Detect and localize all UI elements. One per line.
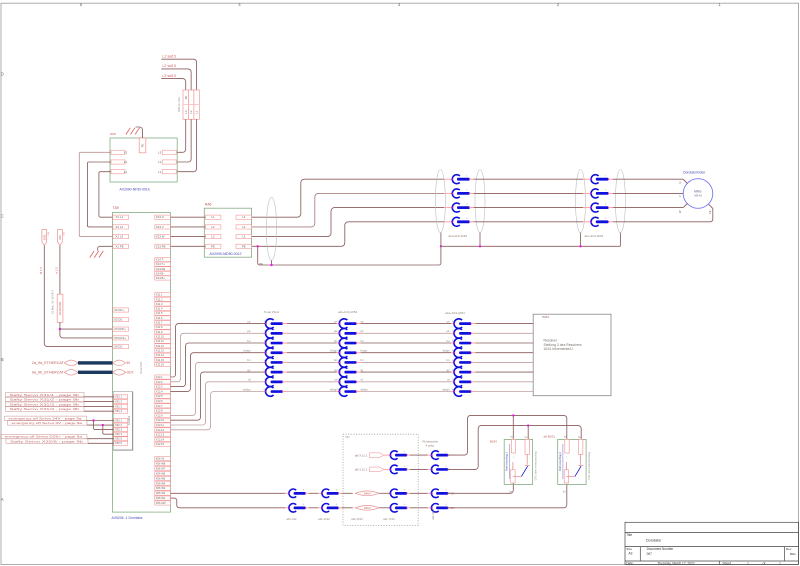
svg-text:X06 0V: X06 0V — [156, 457, 165, 461]
wire 24V down to fuse — [59, 246, 61, 295]
svg-text:1: 1 — [605, 176, 607, 178]
wire W to motor — [613, 207, 683, 209]
salmon stub bn/gn g1 out — [282, 352, 287, 354]
drive pin X11.16 — [155, 362, 171, 366]
svg-text:bu: bu — [447, 339, 450, 343]
drive pin X14 T+ — [155, 262, 171, 266]
svg-text:X11.6: X11.6 — [156, 316, 163, 320]
filter right pin L2' — [162, 160, 176, 164]
salmon stub out of pair D row2 — [448, 468, 451, 470]
svg-text:L1: L1 — [158, 170, 162, 174]
svg-text:PE: PE — [184, 96, 188, 100]
wire RA6 PE up to PE run — [252, 222, 445, 247]
ground symbol below X1 PE — [90, 251, 104, 258]
salmon stub out of plug V g1 — [469, 192, 473, 194]
feedback connector bn/gn group1 — [264, 348, 284, 358]
drive pin X13 W — [155, 235, 171, 239]
svg-text:1: 1 — [445, 452, 447, 454]
svg-text:X32 2: X32 2 — [115, 423, 123, 427]
salmon stub gy g1 out — [282, 371, 287, 373]
drive pin X12.7 — [155, 404, 171, 408]
drive pin X0 DC- — [113, 345, 129, 349]
svg-text:X11.11: X11.11 — [156, 339, 164, 343]
salmon stub out of plug V g2 — [609, 192, 613, 194]
svg-text:Thursday, March 17, 2022: Thursday, March 17, 2022 — [658, 561, 695, 565]
svg-text:9a_9b_ETHERCAT: 9a_9b_ETHERCAT — [32, 371, 65, 375]
salmon stub bu g2 out — [356, 342, 360, 344]
salmon stub bu g3 out — [471, 342, 475, 344]
svg-text:bn: bn — [447, 358, 450, 362]
wire X12.1 fan up to ye row — [170, 324, 266, 377]
wire X12.9 fan up to bn row — [170, 362, 266, 415]
drive pin X11.9 — [155, 330, 171, 334]
svg-text:X11.8: X11.8 — [156, 325, 163, 329]
svg-text:L1: L1 — [242, 215, 246, 219]
drive pin X12.13 — [155, 433, 171, 437]
svg-text:4: 4 — [336, 504, 338, 506]
svg-text:Dorotator: Dorotator — [646, 539, 662, 543]
svg-text:X1 L3: X1 L3 — [116, 235, 124, 239]
svg-text:PE: PE — [708, 210, 712, 214]
wire bn/gn group3 to resolver — [475, 352, 533, 354]
salmon stub bn/gn g3 out — [471, 352, 475, 354]
svg-text:EtherCAT: EtherCAT — [139, 361, 143, 373]
svg-text:X31 1: X31 1 — [115, 395, 123, 399]
safety pin X32 4 — [114, 432, 128, 436]
wire row4 pairB to K62 box — [342, 507, 353, 509]
svg-text:X32 6: X32 6 — [115, 441, 123, 445]
wire row3 pairC to pairD — [410, 492, 428, 494]
wire filter PE to ground — [136, 127, 143, 138]
cable screen ellipse A — [435, 170, 445, 233]
svg-text:X06 IN3: X06 IN3 — [156, 486, 166, 490]
wire branch down to B534 pin1 — [512, 415, 514, 441]
salmon stub bn g1 out — [282, 361, 287, 363]
feedback connector bn/gn group2 — [337, 348, 357, 358]
salmon stub gy g2 in — [337, 371, 341, 373]
cable screen ellipse D — [615, 170, 625, 233]
wire PE group1 to group2 — [474, 221, 584, 223]
salmon stub out of plug W g2 — [609, 207, 613, 209]
drive pin X1 L1 — [113, 215, 129, 219]
salmon stub rd g3 in — [451, 381, 455, 383]
svg-text:X1 PE: X1 PE — [116, 244, 124, 248]
svg-text:X11.10: X11.10 — [156, 335, 165, 339]
salmon stub into plug W g2 — [583, 207, 591, 209]
salmon stub out of pair D row1 — [448, 454, 451, 456]
fuse EL/SA POW — [57, 294, 63, 322]
wire bn group2 to group3 — [361, 361, 452, 363]
wire X13 V to RA6 L2 — [170, 226, 205, 228]
svg-text:Dreh Anschlag 2: Dreh Anschlag 2 — [558, 451, 562, 471]
svg-text:Date:: Date: — [626, 561, 634, 565]
feedback connector ye group2 — [337, 319, 357, 329]
feedback connector bu group1 — [264, 338, 284, 348]
drive pin X13 V — [155, 225, 171, 229]
svg-text:X11.12: X11.12 — [156, 344, 165, 348]
svg-text:X0 DCP+: X0 DCP+ — [114, 327, 126, 331]
svg-text:X13 V: X13 V — [156, 225, 164, 229]
wire gy group1 to group2 — [287, 371, 337, 373]
svg-text:gy: gy — [247, 368, 251, 372]
drive pin X12.14 — [155, 437, 171, 441]
svg-text:L2: L2 — [124, 160, 128, 164]
svg-text:Bittn: Bittn — [790, 552, 796, 556]
salmon stub out of pair A row4 — [305, 507, 308, 509]
salmon stub pk g1 out — [282, 332, 287, 334]
svg-text:X12.1: X12.1 — [156, 375, 163, 379]
svg-text:gy: gy — [447, 369, 450, 372]
brake connector pair A row3 — [289, 489, 307, 498]
drive pin X11.3 — [155, 302, 171, 306]
svg-text:X06 24V: X06 24V — [156, 501, 166, 505]
svg-text:RA6: RA6 — [205, 202, 212, 206]
wire branch down to B534 pin2 — [527, 426, 529, 442]
wire X12.2 fan up to pk row — [170, 333, 266, 382]
cable connector U group2 — [591, 175, 610, 184]
wire to X31 1 — [84, 396, 114, 398]
offpage connector 2a_9a_ETHERCAT — [64, 360, 78, 366]
salmon stub gy g2 out — [356, 371, 360, 373]
svg-text:4: 4 — [605, 218, 607, 220]
junction row1 to B534 — [512, 414, 514, 416]
salmon stub into plug PE g2 — [583, 221, 591, 223]
drive pin X06 IN4 — [155, 481, 171, 485]
svg-text:bl 1.5: bl 1.5 — [39, 267, 43, 274]
junction row2 to B534 — [527, 424, 529, 426]
svg-text:X11.14: X11.14 — [156, 353, 165, 357]
drive pin X06 IN2 — [155, 491, 171, 495]
drive pin X12.4 — [155, 389, 171, 393]
svg-text:X11.9: X11.9 — [156, 330, 163, 334]
salmon stub bn/gn g3 in — [451, 352, 455, 354]
svg-text:-K14: -K14 — [48, 232, 50, 236]
svg-text:X06 IN5: X06 IN5 — [156, 476, 166, 480]
net flag a8-X12.2 — [370, 467, 384, 472]
salmon stub pk g3 out — [471, 332, 475, 334]
feedback connector bn/gn group3 — [452, 348, 472, 358]
junction PE wire / screen drain — [257, 245, 259, 247]
feedback connector pk group2 — [337, 329, 357, 339]
net flag a8-X12.1 — [370, 453, 384, 458]
filter left pin L3 — [111, 150, 125, 154]
filter left pin L2 — [111, 160, 125, 164]
drive pin X14 PE — [155, 267, 171, 271]
wire branch to X32 4 — [103, 425, 114, 434]
svg-text:ye: ye — [447, 320, 450, 323]
svg-text:L1: L1 — [124, 170, 128, 174]
svg-text:PE: PE — [141, 144, 145, 148]
drive TA9 box AX5206 — [112, 213, 170, 513]
svg-text:emergency off Servo D26+ - pag: emergency off Servo D26+ - page 9a — [5, 435, 83, 439]
salmon stub rd g2 out — [356, 381, 360, 383]
cable connector W group1 — [452, 203, 470, 212]
svg-text:X31 4: X31 4 — [115, 409, 123, 413]
wire bn/gn group1 to group2 — [287, 352, 337, 354]
wire ye group1 to group2 — [287, 323, 337, 325]
screen drop from ellipse 1 — [271, 260, 273, 265]
svg-text:PE: PE — [259, 262, 263, 266]
salmon stub into plug PE g1 — [444, 221, 452, 223]
drive pin X1 L3 — [113, 235, 129, 239]
feedback connector wh/gn group2 — [337, 387, 357, 397]
svg-text:1024 Inkremente/U: 1024 Inkremente/U — [544, 347, 574, 351]
salmon stub into pair A row3 — [285, 492, 289, 494]
connector pair D (Rundstecker) row1 — [431, 451, 449, 460]
wire L3' from label to breaker col L3 — [161, 79, 186, 90]
svg-text:Safty Servo X32/6 - page 9b: Safty Servo X32/6 - page 9b — [10, 439, 84, 443]
wire ye group3 to resolver — [475, 323, 533, 325]
filter PE pin — [139, 138, 146, 153]
safety pin X32 1 — [114, 418, 128, 422]
svg-text:X11.15: X11.15 — [156, 358, 165, 362]
svg-text:X32 4: X32 4 — [115, 432, 123, 436]
wire gy group3 to resolver — [475, 371, 533, 373]
junction screen ellipse C — [579, 245, 581, 247]
salmon stub out of pair C row4 — [407, 507, 410, 509]
wire pk group1 to group2 — [287, 332, 337, 334]
motor MAG circle — [683, 179, 713, 209]
wire U group1 to group2 — [474, 178, 584, 180]
svg-text:PE: PE — [211, 244, 215, 248]
svg-text:X32 5: X32 5 — [115, 437, 123, 441]
svg-text:L1' sw2.5: L1' sw2.5 — [163, 54, 177, 58]
safety pin X32 5 — [114, 437, 128, 441]
svg-text:4: 4 — [466, 218, 468, 220]
drive pin X14 T- — [155, 258, 171, 262]
svg-text:wh/gn: wh/gn — [330, 387, 338, 391]
wire RA6 L2 up to V run — [252, 193, 445, 227]
svg-text:ye: ye — [361, 320, 364, 323]
salmon stub bu g2 in — [337, 342, 341, 344]
wire gy group2 to group3 — [361, 371, 452, 373]
svg-text:bu: bu — [525, 436, 528, 439]
feedback connector bn group3 — [452, 358, 472, 368]
salmon stub out of pair C row2 — [407, 468, 410, 470]
svg-text:wh/gn: wh/gn — [442, 387, 450, 391]
drive pin X11.10 — [155, 334, 171, 338]
svg-text:wh/gn: wh/gn — [243, 387, 251, 391]
drive pin X13 PE — [155, 244, 171, 248]
svg-text:a11-X511: a11-X511 — [432, 509, 435, 520]
svg-text:X12.13: X12.13 — [156, 433, 165, 437]
svg-text:X12.11: X12.11 — [156, 423, 165, 427]
drive pin X06 IN8 — [155, 461, 171, 465]
svg-text:Size: Size — [626, 547, 632, 551]
safety pin X32 3 — [114, 428, 128, 432]
drive pin X2 DC- — [113, 317, 129, 321]
limit switch B534 — [504, 439, 532, 484]
svg-text:a1n+KL9-2K54: a1n+KL9-2K54 — [585, 234, 604, 238]
feedback connector rd group1 — [264, 377, 284, 387]
svg-text:Title: Title — [626, 533, 632, 537]
svg-text:a11+KL9-1K54: a11+KL9-1K54 — [449, 234, 468, 238]
ground symbol above filter — [126, 128, 140, 135]
svg-text:D3D3: D3D3 — [364, 506, 371, 510]
wire row2 pairC to pairD — [410, 468, 428, 470]
svg-text:5 sup 15pol: 5 sup 15pol — [264, 310, 279, 314]
wire X13 W to RA6 L3 — [170, 236, 205, 238]
salmon stub out of pair B row3 — [338, 492, 341, 494]
cable screen ellipse C — [576, 170, 586, 233]
svg-text:X14 B+: X14 B+ — [156, 276, 166, 280]
screen drop ellipse D — [619, 233, 621, 247]
svg-text:1: 1 — [779, 561, 781, 565]
salmon stub bn/gn g2 out — [356, 352, 360, 354]
svg-text:bn: bn — [361, 358, 364, 362]
svg-text:bn/gn: bn/gn — [361, 349, 368, 353]
wire V to motor — [613, 192, 683, 194]
junction 24V/DCP+ — [59, 328, 61, 330]
svg-text:X12.2: X12.2 — [156, 380, 163, 384]
salmon stub bn/gn g2 in — [337, 352, 341, 354]
wire X12.12 fan up to wh/gn row — [170, 392, 266, 430]
salmon stub wh/gn g1 out — [282, 391, 287, 393]
salmon stub into pair B row3 — [318, 492, 322, 494]
cable screen ellipse at choke output — [266, 197, 276, 260]
wire L1' from label to breaker col L1 — [161, 59, 196, 90]
feedback connector rd group2 — [337, 377, 357, 387]
svg-text:of: of — [763, 561, 766, 565]
salmon stub into pair B row4 — [318, 507, 322, 509]
drive pin X06 0V — [155, 457, 171, 461]
svg-text:AX2090-NF50-0014: AX2090-NF50-0014 — [120, 188, 150, 192]
screen drop ellipse B — [479, 233, 481, 247]
wire V group1 to group2 — [474, 192, 584, 194]
svg-text:Dorotatormotor: Dorotatormotor — [683, 170, 706, 174]
svg-text:3: 3 — [336, 490, 338, 492]
svg-text:X06 IN2: X06 IN2 — [156, 491, 166, 495]
svg-text:wh/gn: wh/gn — [361, 387, 369, 391]
svg-text:3: 3 — [404, 490, 406, 492]
salmon stub bn g3 in — [451, 361, 455, 363]
svg-text:1: 1 — [404, 452, 406, 454]
EtherCAT cable bar OUT — [78, 371, 113, 374]
offpage connector 9a_9b_ETHERCAT — [64, 370, 78, 376]
svg-text:D: D — [1, 72, 4, 77]
salmon stub bu g1 out — [282, 342, 287, 344]
svg-text:Document Number: Document Number — [647, 547, 675, 551]
svg-text:2a_9a_ETHERCAT: 2a_9a_ETHERCAT — [32, 361, 65, 365]
svg-text:2: 2 — [445, 466, 447, 468]
svg-text:X1 L2: X1 L2 — [116, 225, 124, 229]
svg-text:a1A+K13-4X54: a1A+K13-4X54 — [445, 311, 465, 315]
svg-text:L3: L3 — [124, 151, 128, 155]
title block frame — [625, 522, 798, 564]
feedback connector gy group3 — [452, 367, 472, 377]
svg-text:4: 4 — [566, 467, 568, 469]
wire X12.3 fan up to bu row — [170, 343, 266, 387]
safety pin X31 1 — [114, 395, 128, 399]
wire filter L3 to X1 L3 — [79, 152, 112, 236]
choke left pin L3 — [205, 235, 221, 239]
svg-text:3: 3 — [303, 490, 305, 492]
svg-text:X12.14: X12.14 — [156, 437, 165, 441]
EtherCAT cable bar IN — [78, 361, 113, 364]
connector pair C row4 — [390, 504, 408, 513]
filter right pin L3' — [162, 150, 176, 154]
svg-text:pk: pk — [447, 329, 450, 333]
svg-text:M3-41: M3-41 — [695, 193, 703, 197]
salmon stub into plug V g1 — [444, 192, 452, 194]
svg-text:W: W — [678, 210, 682, 213]
salmon stub out of pair D row3 — [448, 492, 451, 494]
drive pin X2 DC+ — [113, 308, 129, 312]
svg-text:X13 U: X13 U — [156, 215, 164, 219]
svg-text:X13 PE: X13 PE — [156, 244, 166, 248]
salmon stub wh/gn g2 in — [337, 391, 341, 393]
svg-text:GND: GND — [43, 235, 46, 241]
wire fuse to junction — [59, 322, 61, 329]
wire D3D3 to connector — [379, 507, 390, 509]
svg-text:bu: bu — [361, 339, 364, 343]
wire to X31 2 — [84, 401, 114, 403]
svg-text:2: 2 — [526, 458, 528, 460]
brake connector pair B row3 — [322, 489, 340, 498]
svg-text:1: 1 — [566, 457, 568, 459]
choke RA6 box AX2090-MD50-0012 — [204, 208, 251, 257]
wire pk group2 to group3 — [361, 332, 452, 334]
svg-text:TA9: TA9 — [113, 206, 119, 210]
wire wh/gn group3 to resolver — [475, 391, 533, 393]
wire a8-X12.1 to connector — [384, 454, 390, 456]
svg-text:X12.4: X12.4 — [156, 389, 163, 393]
connector pair C row2 — [390, 465, 408, 474]
svg-text:Safty Servo X31/1 - page 9b: Safty Servo X31/1 - page 9b — [10, 393, 80, 397]
svg-text:A: A — [1, 497, 4, 502]
svg-text:4 polig: 4 polig — [426, 443, 435, 447]
svg-text:X14 T+: X14 T+ — [156, 262, 165, 266]
svg-text:X06 IN4: X06 IN4 — [156, 481, 166, 485]
drive pin X12.6 — [155, 399, 171, 403]
svg-text:V: V — [678, 195, 682, 197]
page ref label emergency off Servo 0V — [8, 421, 88, 425]
svg-text:X12.12: X12.12 — [156, 428, 165, 432]
drive pin X13 U — [155, 215, 171, 219]
wire bn group3 to resolver — [475, 361, 533, 363]
svg-text:Safty Servo X31/4 - page 9b: Safty Servo X31/4 - page 9b — [10, 407, 80, 411]
wire to X32 5 — [87, 438, 114, 440]
salmon stub wh/gn g2 out — [356, 391, 360, 393]
svg-text:X12.15: X12.15 — [156, 442, 165, 446]
salmon stub gy g3 out — [471, 371, 475, 373]
salmon stub bn g3 out — [471, 361, 475, 363]
svg-text:B361: B361 — [543, 315, 550, 319]
drive pin X12.12 — [155, 428, 171, 432]
svg-text:B534: B534 — [490, 439, 497, 443]
drive pin X11.8 — [155, 325, 171, 329]
svg-text:X11.5: X11.5 — [156, 311, 163, 315]
svg-text:2: 2 — [580, 458, 582, 460]
cable screen ellipse B — [475, 170, 485, 233]
connector pair D (Rundstecker) row3 — [431, 489, 449, 498]
svg-text:X11.13: X11.13 — [156, 349, 165, 353]
power flag GND — [42, 230, 47, 246]
screen drain left leg — [258, 246, 441, 265]
svg-text:3: 3 — [605, 204, 607, 206]
salmon stub into pair D row3 — [428, 492, 432, 494]
svg-text:bn/gn: bn/gn — [243, 349, 250, 353]
cable connector PE group1 — [452, 217, 470, 226]
junction screen bus left — [440, 245, 442, 247]
salmon stub into pair A row4 — [285, 507, 289, 509]
wire row3 to B534 bottom pin — [448, 483, 513, 493]
wire to X32 6 — [88, 442, 114, 444]
wire branch to X32 3 — [94, 421, 114, 430]
salmon stub out of plug U g1 — [469, 178, 473, 180]
svg-text:bu: bu — [247, 339, 251, 343]
svg-text:4: 4 — [445, 504, 447, 506]
